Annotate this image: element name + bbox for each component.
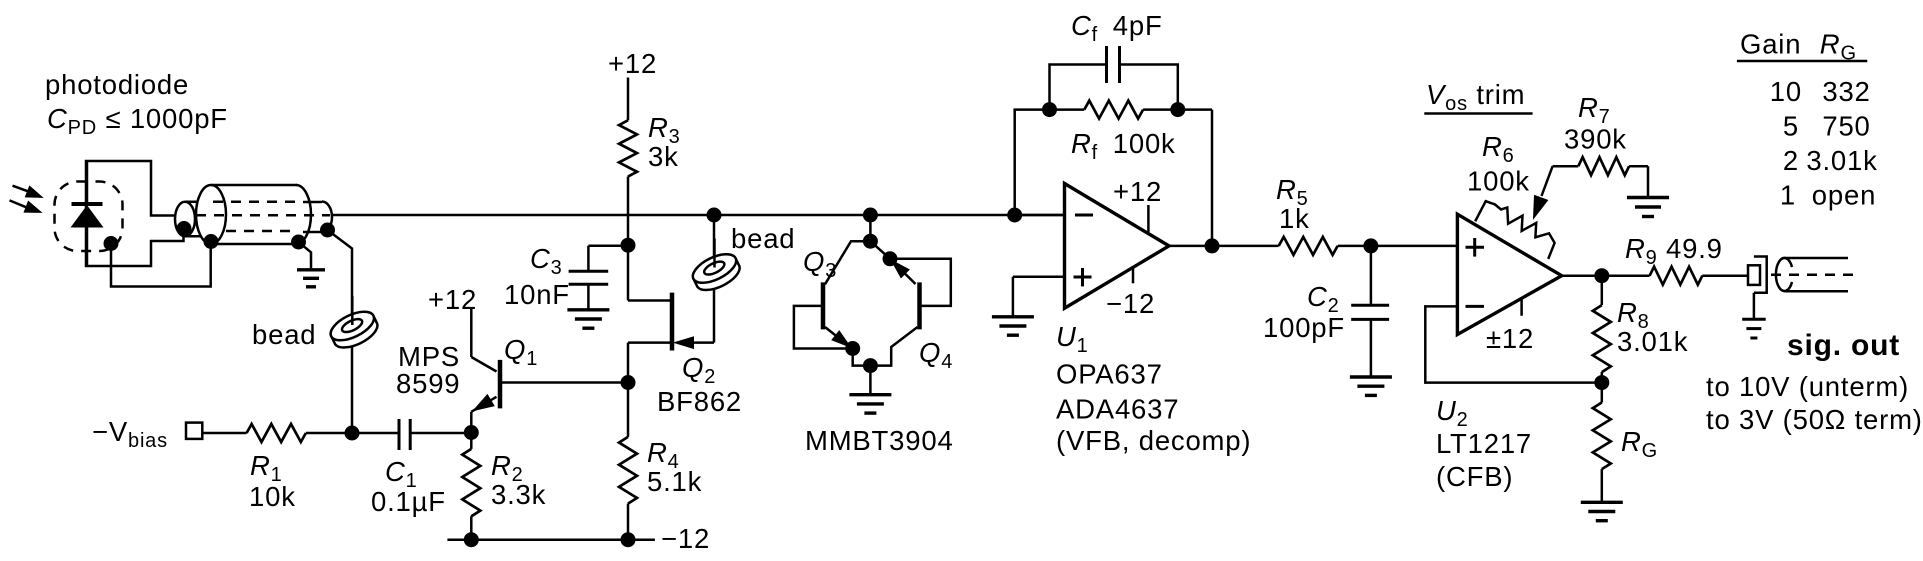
svg-text:to 10V (unterm): to 10V (unterm) bbox=[1706, 371, 1909, 402]
svg-text:10: 10 bbox=[1770, 76, 1802, 107]
svg-text:2: 2 bbox=[1783, 145, 1799, 176]
svg-text:Vos​ trim: Vos​ trim bbox=[1426, 79, 1525, 115]
svg-text:+12: +12 bbox=[608, 48, 657, 79]
svg-text:ADA4637: ADA4637 bbox=[1056, 394, 1179, 425]
svg-text:100k: 100k bbox=[1467, 166, 1530, 197]
svg-text:8599: 8599 bbox=[396, 368, 460, 399]
svg-text:+12: +12 bbox=[428, 284, 477, 315]
svg-text:0.1µF: 0.1µF bbox=[371, 486, 446, 517]
svg-text:10k: 10k bbox=[249, 481, 296, 512]
svg-text:1: 1 bbox=[1780, 180, 1796, 211]
svg-text:(VFB, decomp): (VFB, decomp) bbox=[1056, 425, 1251, 456]
svg-text:photodiode: photodiode bbox=[45, 69, 189, 100]
svg-text:332: 332 bbox=[1822, 76, 1870, 107]
svg-text:Rf​ 100k: Rf​ 100k bbox=[1071, 128, 1176, 164]
svg-text:+12: +12 bbox=[1113, 176, 1162, 207]
svg-text:3.3k: 3.3k bbox=[491, 479, 546, 510]
svg-text:bead: bead bbox=[252, 319, 316, 350]
svg-text:to 3V (50Ω term): to 3V (50Ω term) bbox=[1706, 404, 1923, 435]
svg-text:bead: bead bbox=[731, 223, 795, 254]
svg-text:390k: 390k bbox=[1564, 124, 1627, 155]
svg-text:open: open bbox=[1812, 180, 1876, 211]
svg-text:10nF: 10nF bbox=[504, 279, 570, 310]
svg-text:BF862: BF862 bbox=[657, 386, 742, 417]
svg-text:OPA637: OPA637 bbox=[1056, 359, 1163, 390]
svg-text:3.01k: 3.01k bbox=[1806, 145, 1877, 176]
svg-text:±12: ±12 bbox=[1486, 323, 1534, 354]
svg-text:−12: −12 bbox=[661, 523, 710, 554]
svg-text:Cf​ 4pF: Cf​ 4pF bbox=[1071, 10, 1163, 46]
svg-text:−12: −12 bbox=[1106, 288, 1155, 319]
svg-text:5: 5 bbox=[1783, 111, 1799, 142]
svg-text:5.1k: 5.1k bbox=[647, 466, 702, 497]
svg-text:3.01k: 3.01k bbox=[1617, 326, 1688, 357]
svg-text:3k: 3k bbox=[648, 141, 679, 172]
svg-text:LT1217: LT1217 bbox=[1436, 428, 1532, 459]
svg-text:750: 750 bbox=[1822, 111, 1870, 142]
svg-text:MMBT3904: MMBT3904 bbox=[805, 425, 954, 456]
svg-text:R9​ 49.9: R9​ 49.9 bbox=[1625, 233, 1723, 269]
svg-text:sig. out: sig. out bbox=[1787, 329, 1900, 362]
svg-text:(CFB): (CFB) bbox=[1436, 461, 1513, 492]
svg-text:Gain: Gain bbox=[1740, 29, 1801, 60]
svg-text:100pF: 100pF bbox=[1263, 312, 1345, 343]
svg-text:1k: 1k bbox=[1279, 203, 1310, 234]
